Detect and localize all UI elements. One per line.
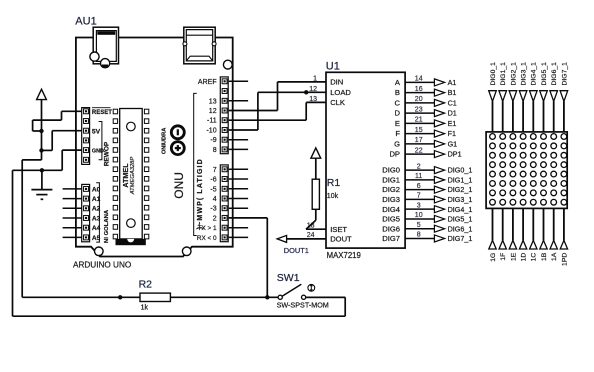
svg-text:1F: 1F: [500, 253, 507, 261]
svg-text:E: E: [395, 119, 400, 128]
svg-text:DIG4: DIG4: [382, 205, 400, 214]
svg-text:1C: 1C: [531, 253, 538, 262]
svg-text:DOUT: DOUT: [330, 235, 352, 244]
svg-text:NI GOLANA: NI GOLANA: [104, 209, 110, 243]
svg-text:U1: U1: [326, 61, 340, 73]
svg-text:16: 16: [415, 86, 423, 93]
svg-text:B: B: [395, 88, 400, 97]
svg-text:-11: -11: [207, 118, 217, 125]
svg-text:E1: E1: [448, 119, 457, 128]
svg-text:-5: -5: [210, 186, 216, 193]
svg-text:DIG3_1: DIG3_1: [521, 62, 528, 86]
svg-text:10: 10: [415, 212, 423, 219]
svg-text:REWOP: REWOP: [103, 141, 110, 166]
svg-text:RESET: RESET: [92, 110, 112, 116]
svg-text:ATMEGA328P: ATMEGA328P: [130, 157, 136, 196]
svg-text:24: 24: [307, 232, 315, 239]
svg-text:A1: A1: [448, 78, 457, 87]
svg-text:DIG1_1: DIG1_1: [448, 175, 473, 184]
svg-text:-3: -3: [210, 206, 216, 213]
svg-text:20: 20: [415, 96, 423, 103]
svg-text:D1: D1: [448, 109, 457, 118]
svg-text:2: 2: [213, 215, 217, 222]
svg-text:2: 2: [417, 163, 421, 170]
svg-text:6: 6: [417, 183, 421, 190]
svg-text:DIG7_1: DIG7_1: [561, 62, 568, 86]
svg-text:5: 5: [417, 222, 421, 229]
svg-text:RX < 0: RX < 0: [197, 235, 217, 242]
svg-text:1G: 1G: [490, 253, 497, 262]
svg-text:1: 1: [313, 76, 317, 83]
svg-text:21: 21: [415, 117, 423, 124]
svg-text:1D: 1D: [521, 253, 528, 262]
svg-text:10k: 10k: [327, 193, 339, 200]
svg-text:LOAD: LOAD: [330, 88, 351, 97]
svg-text:DIG6_1: DIG6_1: [448, 224, 473, 233]
svg-text:DIG6: DIG6: [382, 224, 400, 233]
svg-text:DP1: DP1: [448, 150, 462, 159]
svg-text:F: F: [395, 129, 400, 138]
svg-text:C: C: [395, 98, 401, 107]
svg-text:MAX7219: MAX7219: [327, 251, 361, 260]
svg-text:DIG3: DIG3: [382, 195, 400, 204]
svg-text:G: G: [394, 139, 400, 148]
svg-text:SW-SPST-MOM: SW-SPST-MOM: [277, 300, 329, 309]
svg-text:DIG4_1: DIG4_1: [531, 62, 538, 86]
svg-text:1A: 1A: [551, 252, 558, 261]
svg-text:G1: G1: [448, 139, 458, 148]
svg-text:DP: DP: [389, 150, 400, 159]
svg-text:ONU: ONU: [172, 172, 186, 199]
svg-text:7: 7: [213, 167, 217, 174]
svg-text:13: 13: [309, 96, 317, 103]
svg-text:15: 15: [415, 127, 423, 134]
svg-text:8: 8: [213, 147, 217, 154]
svg-text:DIG0_1: DIG0_1: [490, 62, 497, 86]
svg-text:DIG2_1: DIG2_1: [510, 62, 517, 86]
svg-text:C1: C1: [448, 98, 457, 107]
svg-text:3: 3: [417, 202, 421, 209]
svg-text:5V: 5V: [92, 129, 101, 136]
svg-text:11: 11: [415, 173, 422, 180]
svg-text:DIG1: DIG1: [382, 175, 400, 184]
svg-text:DOUT1: DOUT1: [284, 246, 309, 255]
svg-text:AREF: AREF: [198, 79, 217, 86]
svg-text:1PD: 1PD: [561, 253, 568, 266]
svg-text:12: 12: [209, 108, 217, 115]
svg-text:1E: 1E: [510, 252, 517, 261]
svg-text:DIG7: DIG7: [382, 234, 400, 243]
svg-text:DIG4_1: DIG4_1: [448, 205, 473, 214]
svg-text:13: 13: [209, 98, 217, 105]
svg-text:ATMEL: ATMEL: [121, 163, 130, 188]
svg-text:4: 4: [213, 196, 217, 203]
svg-text:CLK: CLK: [330, 98, 345, 107]
svg-text:14: 14: [415, 76, 423, 83]
svg-text:ISET: ISET: [330, 225, 347, 234]
svg-text:DIG7_1: DIG7_1: [448, 234, 473, 243]
svg-text:R1: R1: [327, 177, 341, 189]
svg-text:22: 22: [415, 147, 423, 154]
svg-text:DIG2_1: DIG2_1: [448, 185, 473, 194]
svg-text:D: D: [395, 109, 401, 118]
svg-text:DIG5: DIG5: [382, 215, 400, 224]
svg-text:1B: 1B: [541, 252, 548, 261]
svg-text:DIG3_1: DIG3_1: [448, 195, 473, 204]
svg-text:7: 7: [417, 193, 421, 200]
svg-text:DIG2: DIG2: [382, 185, 400, 194]
svg-text:DIN: DIN: [330, 78, 343, 87]
svg-text:-6: -6: [210, 177, 216, 184]
svg-text:8: 8: [417, 232, 421, 239]
svg-text:DIG5_1: DIG5_1: [448, 215, 473, 224]
svg-text:1k: 1k: [141, 305, 149, 312]
svg-text:DIG0: DIG0: [382, 166, 400, 175]
svg-text:AU1: AU1: [75, 16, 96, 28]
svg-text:ONIUDRA: ONIUDRA: [161, 128, 167, 155]
svg-text:DIG0_1: DIG0_1: [448, 166, 473, 175]
svg-text:F1: F1: [448, 129, 456, 138]
svg-text:DIG1_1: DIG1_1: [500, 62, 507, 86]
svg-text:12: 12: [309, 86, 317, 93]
svg-text:B1: B1: [448, 88, 457, 97]
svg-text:R2: R2: [139, 279, 153, 291]
svg-text:-10: -10: [206, 128, 216, 135]
svg-text:ARDUINO UNO: ARDUINO UNO: [73, 261, 131, 270]
svg-text:SW1: SW1: [277, 272, 300, 284]
svg-text:-9: -9: [210, 137, 216, 144]
svg-text:DIG6_1: DIG6_1: [551, 62, 558, 86]
svg-text:)~MWP( LATIGID: )~MWP( LATIGID: [197, 159, 204, 229]
svg-text:17: 17: [415, 137, 423, 144]
svg-text:23: 23: [415, 106, 423, 113]
svg-text:DIG5_1: DIG5_1: [541, 62, 548, 86]
